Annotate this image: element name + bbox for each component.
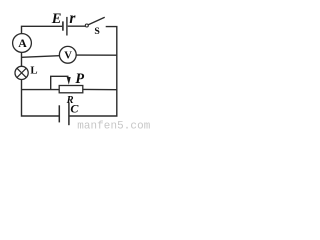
lamp L cross <box>17 68 26 77</box>
wire lamp top to ammeter bottom <box>21 52 23 66</box>
svg-text:manfen5.com: manfen5.com <box>77 121 150 131</box>
rheostat R box <box>59 86 83 93</box>
bottom wire from capacitor to bottom-left corner and up to lamp <box>22 80 59 116</box>
slider arrowhead P <box>67 77 71 85</box>
svg-text:L: L <box>30 64 37 76</box>
wire switch to top-right corner and right side down <box>70 27 117 116</box>
capacitor C right plate <box>68 103 70 126</box>
rheostat row right wire <box>83 88 117 90</box>
svg-text:S: S <box>94 26 100 37</box>
slider loop wire <box>51 76 69 89</box>
ammeter A circle <box>13 34 32 53</box>
voltmeter row left wire <box>22 56 60 58</box>
battery E short plate <box>62 21 64 30</box>
rheostat row left wire <box>22 89 60 91</box>
voltmeter V circle <box>59 46 76 63</box>
capacitor C left plate <box>58 105 60 122</box>
wire battery to switch <box>68 25 86 27</box>
svg-text:V: V <box>64 51 72 62</box>
svg-text:P: P <box>75 71 84 87</box>
switch S pivot <box>85 24 88 27</box>
lamp L circle <box>15 66 28 79</box>
voltmeter row right wire <box>76 54 117 56</box>
switch S lever <box>88 17 104 25</box>
svg-text:R: R <box>66 95 74 106</box>
svg-text:A: A <box>18 36 27 50</box>
wire top-left from A up and right to battery <box>22 26 63 34</box>
svg-text:r: r <box>69 10 76 27</box>
battery E long plate <box>66 17 68 36</box>
svg-text:E: E <box>51 11 62 27</box>
